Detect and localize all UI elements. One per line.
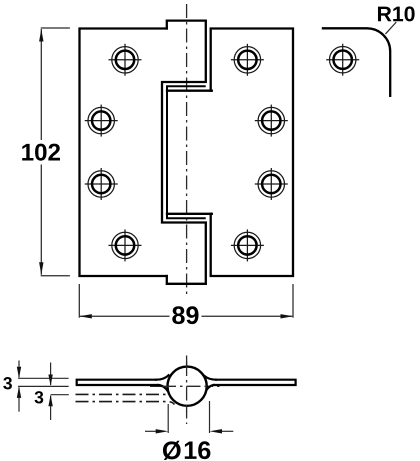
text 3 a — [3, 377, 12, 389]
side view: knuckle axes (dash-dot) — [150, 356, 222, 425]
screw hole in detail — [326, 44, 359, 76]
screw hole A2 — [231, 44, 264, 76]
dimension 89 (bottom) — [79, 284, 293, 318]
right leaf notch edges — [167, 90, 212, 92]
dimension 102 (left) — [41, 28, 70, 276]
screw hole D1 — [109, 229, 142, 261]
text 102 — [22, 144, 60, 161]
dimension 3 (phantom offset) — [51, 363, 69, 421]
side view: phantom leaf (closed position, dash-dot) — [76, 394, 175, 404]
side view: knuckle circle — [168, 367, 207, 406]
left leaf outline — [80, 21, 206, 284]
text R10 — [378, 6, 415, 21]
side view: right leaf — [205, 376, 296, 392]
screw hole B2 — [255, 105, 288, 137]
hinge centre axis (dash-dot), front view — [186, 4, 188, 294]
right leaf outline — [167, 29, 293, 277]
text 3 b — [35, 391, 44, 403]
text 16 v2 — [185, 441, 211, 459]
axes over circle — [162, 362, 212, 412]
dimension Ø16 (knuckle) — [145, 401, 233, 433]
screw hole B1 — [85, 105, 118, 137]
leader line R10 — [386, 22, 397, 34]
screw hole C1 — [85, 168, 118, 200]
dimension 3 (leaf thickness) — [18, 361, 69, 412]
side view: left leaf — [77, 375, 169, 393]
screw hole A1 — [109, 44, 142, 76]
corner detail: R10 — [322, 28, 390, 97]
leaf gap contour lines (middle tongue) — [167, 86, 205, 218]
screw hole D2 — [231, 229, 264, 261]
top knuckle tab — [162, 21, 206, 284]
screw hole C2 — [255, 168, 288, 200]
text dia v2 — [163, 441, 181, 460]
text 89 v2 — [172, 306, 198, 324]
